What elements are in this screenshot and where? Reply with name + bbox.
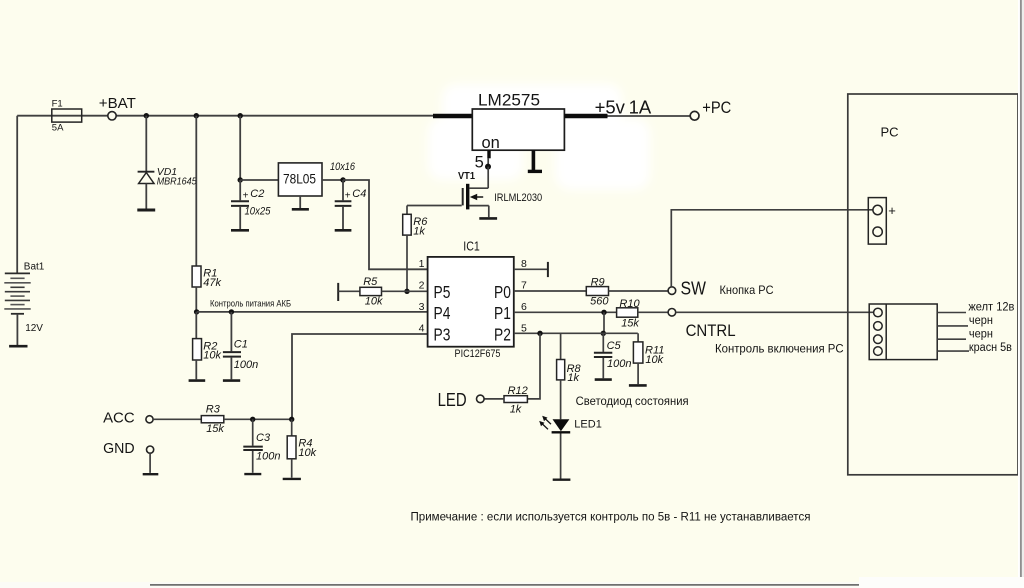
svg-text:C4: C4 (352, 188, 366, 200)
svg-text:Bat1: Bat1 (24, 261, 45, 272)
wire (17, 115, 108, 117)
ground C3 (244, 473, 261, 475)
pin 2 (419, 280, 425, 292)
svg-text:on: on (482, 134, 500, 152)
ground R2 (189, 379, 206, 382)
terminal GND (103, 440, 154, 473)
svg-text:1k: 1k (567, 372, 579, 384)
node C5 top (601, 331, 606, 336)
svg-text:100n: 100n (234, 359, 258, 371)
svg-text:PC: PC (881, 124, 899, 139)
svg-text:R10: R10 (619, 298, 640, 310)
terminal SW (668, 279, 774, 299)
svg-text:47k: 47k (203, 277, 221, 289)
svg-text:P5: P5 (434, 283, 451, 302)
svg-text:4: 4 (419, 323, 425, 335)
connector J1 power (868, 198, 896, 245)
svg-text:10k: 10k (203, 350, 221, 362)
resistor R3 15k (153, 404, 292, 435)
svg-text:R3: R3 (206, 404, 221, 416)
svg-text:VT1: VT1 (458, 171, 475, 182)
svg-text:LED: LED (438, 389, 467, 410)
capacitor C3 100n (243, 419, 280, 473)
connector J2 wires (869, 304, 937, 360)
regulator 78L05 (278, 163, 322, 208)
ground R4 (283, 478, 301, 480)
wire SW to connector (671, 210, 873, 287)
wire black 1 (937, 315, 993, 327)
node C1 top (229, 309, 234, 314)
wire red 5v (937, 342, 1012, 354)
svg-text:P3: P3 (434, 326, 451, 345)
ground C4 (335, 229, 352, 232)
fuse F1 (52, 98, 82, 133)
ground LED1 (553, 479, 571, 481)
svg-text:R5: R5 (363, 276, 378, 288)
svg-text:IRLML2030: IRLML2030 (494, 192, 542, 204)
terminal +PC (690, 99, 731, 120)
svg-text:SW: SW (681, 279, 707, 299)
svg-text:черн: черн (969, 329, 993, 341)
ground C2 (231, 229, 249, 232)
svg-text:10x16: 10x16 (330, 161, 356, 173)
svg-text:желт 12в: желт 12в (968, 301, 1014, 313)
capacitor C1 100n (223, 312, 258, 379)
wire to vdd corner (343, 180, 428, 269)
svg-text:P0: P0 (494, 283, 511, 302)
pin 6 (521, 301, 527, 313)
svg-text:5A: 5A (52, 123, 64, 134)
svg-text:черн: черн (969, 315, 993, 327)
svg-text:+: + (345, 190, 351, 201)
resistor R9 560 (586, 276, 668, 307)
wire gate net (407, 205, 462, 207)
svg-text:F1: F1 (52, 98, 63, 109)
wire (116, 115, 433, 117)
svg-text:100n: 100n (256, 450, 280, 462)
svg-text:R12: R12 (508, 385, 528, 397)
node pin5-R12 (537, 331, 542, 336)
node R5-R6-pin2 (404, 289, 409, 294)
svg-text:5: 5 (475, 154, 484, 172)
node C4 top (340, 177, 345, 182)
svg-text:GND: GND (103, 440, 135, 457)
pin 4 (419, 323, 425, 335)
svg-text:Светодиод состояния: Светодиод состояния (576, 394, 689, 408)
svg-text:+: + (243, 190, 249, 201)
ground battery (9, 345, 27, 348)
svg-text:1A: 1A (629, 97, 652, 118)
svg-text:IC1: IC1 (463, 238, 480, 253)
svg-text:+PC: +PC (702, 99, 731, 117)
svg-text:Контроль включения PC: Контроль включения PC (715, 342, 844, 356)
pin 7 (521, 280, 527, 292)
note text (411, 512, 811, 524)
wire pin5 net (514, 332, 638, 334)
svg-text:LM2575: LM2575 (478, 92, 540, 110)
svg-text:R9: R9 (591, 276, 605, 288)
svg-text:ACC: ACC (103, 410, 135, 427)
wire to +PC (608, 115, 691, 117)
resistor R5 10k (338, 276, 427, 308)
svg-text:MBR1645: MBR1645 (157, 176, 197, 188)
terminator pin8 (547, 262, 549, 277)
svg-text:P2: P2 (494, 326, 511, 345)
svg-text:+BAT: +BAT (99, 95, 136, 112)
node rail-VD1 (144, 113, 149, 118)
wire thick rail right (564, 114, 607, 119)
diode VD1 MBR1645 (138, 166, 197, 209)
ground GND (143, 473, 159, 475)
wire CNTRL to connector (676, 311, 874, 313)
node R3-C3 (250, 417, 255, 422)
wire R10 down (603, 312, 605, 333)
svg-text:10x25: 10x25 (245, 206, 272, 218)
svg-text:15k: 15k (206, 423, 224, 435)
svg-text:Кнопка PC: Кнопка PC (720, 283, 774, 297)
terminal CNTRL (668, 309, 844, 356)
node 78L05 in (238, 177, 243, 182)
svg-text:10k: 10k (298, 447, 316, 459)
svg-text:P4: P4 (434, 305, 451, 324)
svg-text:3: 3 (419, 301, 425, 313)
label AKB sense (210, 299, 291, 310)
wire pin3 net (197, 311, 428, 313)
svg-text:+: + (888, 203, 896, 218)
battery Bat1 12V (4, 261, 45, 334)
wire to 78L05 (240, 179, 278, 181)
ground C1 (223, 379, 240, 382)
LED LED1 (539, 416, 602, 479)
resistor R11 10k (633, 333, 664, 384)
resistor R2 10k (193, 312, 222, 379)
svg-text:P1: P1 (494, 305, 511, 324)
svg-text:2: 2 (419, 280, 425, 292)
wire pin8 (514, 268, 548, 270)
resistor R4 10k (287, 419, 316, 477)
node pin5-drain (485, 164, 491, 170)
wire pin7 (514, 290, 587, 292)
svg-text:100n: 100n (607, 358, 631, 370)
node R4 top (289, 417, 294, 422)
svg-text:C5: C5 (607, 340, 622, 352)
node AKB sense (194, 309, 199, 314)
svg-text:1: 1 (419, 258, 425, 270)
svg-text:красн 5в: красн 5в (969, 342, 1012, 354)
ground VT1 source (479, 217, 497, 220)
svg-text:C2: C2 (250, 188, 264, 200)
wire (16, 116, 18, 273)
wire VD1 drop (145, 116, 147, 172)
page edge bottom (0, 577, 1024, 588)
svg-text:7: 7 (521, 280, 527, 292)
svg-text:Контроль питания АКБ: Контроль питания АКБ (210, 299, 291, 310)
resistor R12 1k (484, 385, 528, 416)
node rail-R1 (194, 113, 199, 118)
svg-text:560: 560 (590, 296, 609, 308)
svg-text:+5v: +5v (595, 97, 626, 118)
svg-text:6: 6 (521, 301, 527, 313)
svg-text:C1: C1 (234, 338, 248, 350)
node R10 left (601, 310, 606, 315)
terminal LED (438, 389, 485, 410)
ground C5 (595, 378, 612, 381)
op-amp IC1 PIC12F675 (428, 238, 514, 359)
wire R8 drop (560, 333, 562, 359)
capacitor C5 100n (594, 333, 632, 378)
wire pin6 (514, 311, 617, 313)
resistor R6 1k (403, 206, 429, 292)
terminal ACC (103, 410, 153, 427)
wire 78L05 out (322, 179, 343, 181)
svg-text:8: 8 (521, 258, 527, 270)
svg-text:Примечание : если используетс: Примечание : если используется контроль … (411, 512, 811, 524)
capacitor C2 10x25 (231, 180, 271, 229)
ground VD1 (137, 209, 155, 212)
terminator R5 left (337, 283, 339, 301)
pin 5 (521, 323, 527, 335)
svg-text:15k: 15k (621, 317, 639, 329)
pin 5 stub LM2575 (487, 150, 491, 166)
label +5v 1A (595, 97, 652, 118)
terminal +BAT (99, 95, 136, 120)
transistor VT1 IRLML2030 (458, 167, 542, 218)
svg-text:1k: 1k (413, 225, 425, 237)
page edge right (1018, 0, 1024, 588)
regulator U2 LM2575 (472, 92, 564, 172)
svg-text:10k: 10k (365, 295, 383, 307)
PC box (848, 94, 1018, 475)
wire R1 to node (195, 287, 197, 312)
label LED note (576, 394, 689, 408)
wire thick rail left (433, 114, 472, 119)
resistor R10 15k (617, 298, 669, 330)
wire pin5 to R12 (527, 333, 540, 399)
pin 3 (419, 301, 425, 313)
resistor R1 47k (192, 266, 221, 289)
ground R11 (629, 384, 647, 387)
svg-text:CNTRL: CNTRL (686, 321, 736, 340)
capacitor C4 10x16 (330, 161, 366, 229)
svg-text:PIC12F675: PIC12F675 (455, 348, 501, 360)
wire black 2 (937, 329, 993, 341)
svg-text:C3: C3 (256, 432, 271, 444)
svg-text:78L05: 78L05 (283, 170, 316, 186)
wire R1 drop (195, 116, 197, 266)
wire C2 drop (239, 116, 241, 180)
svg-text:1k: 1k (510, 404, 522, 416)
wire battery to ground (16, 314, 18, 346)
wire pin4 net (292, 334, 428, 419)
node rail-C2 (238, 113, 243, 118)
pin 8 (521, 258, 527, 270)
pin 1 (419, 258, 425, 270)
ground 78L05 (292, 208, 309, 211)
svg-text:10k: 10k (645, 354, 663, 366)
wire yellow 12v (937, 301, 1014, 313)
resistor R8 1k (557, 360, 582, 420)
ground LM2575 (528, 150, 542, 171)
svg-text:LED1: LED1 (574, 419, 602, 431)
svg-text:12V: 12V (25, 323, 43, 334)
